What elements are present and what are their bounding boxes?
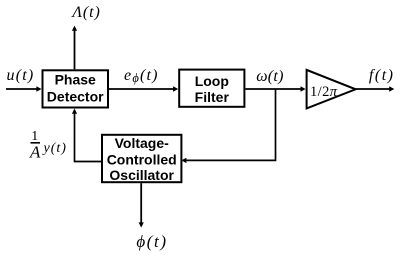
wire Phase Detector up to Lambda(t) [72, 26, 77, 70]
wire VCO left up into Phase Detector bottom [72, 109, 101, 162]
svg-text:A: A [29, 142, 41, 161]
svg-text:u(t): u(t) [7, 67, 35, 84]
svg-text:1/2π: 1/2π [310, 84, 338, 100]
wire feedback from omega node down into VCO right [181, 89, 275, 163]
svg-text:Controlled: Controlled [107, 151, 177, 167]
svg-text:Phase: Phase [55, 72, 96, 88]
wire input u(t) [6, 86, 42, 91]
svg-text:Λ(t): Λ(t) [70, 4, 100, 21]
svg-text:Oscillator: Oscillator [109, 167, 174, 183]
svg-text:f(t): f(t) [369, 67, 395, 84]
svg-text:Voltage-: Voltage- [115, 135, 170, 151]
box Voltage-Controlled Oscillator [102, 135, 181, 183]
gain triangle 1/2pi [307, 70, 356, 109]
box Phase Detector [43, 70, 109, 107]
svg-text:Filter: Filter [195, 89, 230, 105]
svg-text:Detector: Detector [47, 88, 104, 104]
wire Loop Filter to triangle [245, 86, 305, 91]
svg-text:ω(t): ω(t) [256, 68, 284, 85]
svg-text:y(t): y(t) [42, 141, 67, 156]
label 1/A y(t) [29, 129, 67, 161]
svg-text:ϕ(t): ϕ(t) [136, 232, 167, 251]
svg-text:Loop: Loop [195, 73, 229, 89]
box Loop Filter [179, 70, 244, 107]
wire triangle to f(t) output [356, 86, 395, 91]
wire Phase Detector to Loop Filter [109, 86, 178, 91]
wire VCO bottom down to phi(t) [139, 183, 144, 227]
svg-text:eϕ(t): eϕ(t) [124, 67, 159, 85]
